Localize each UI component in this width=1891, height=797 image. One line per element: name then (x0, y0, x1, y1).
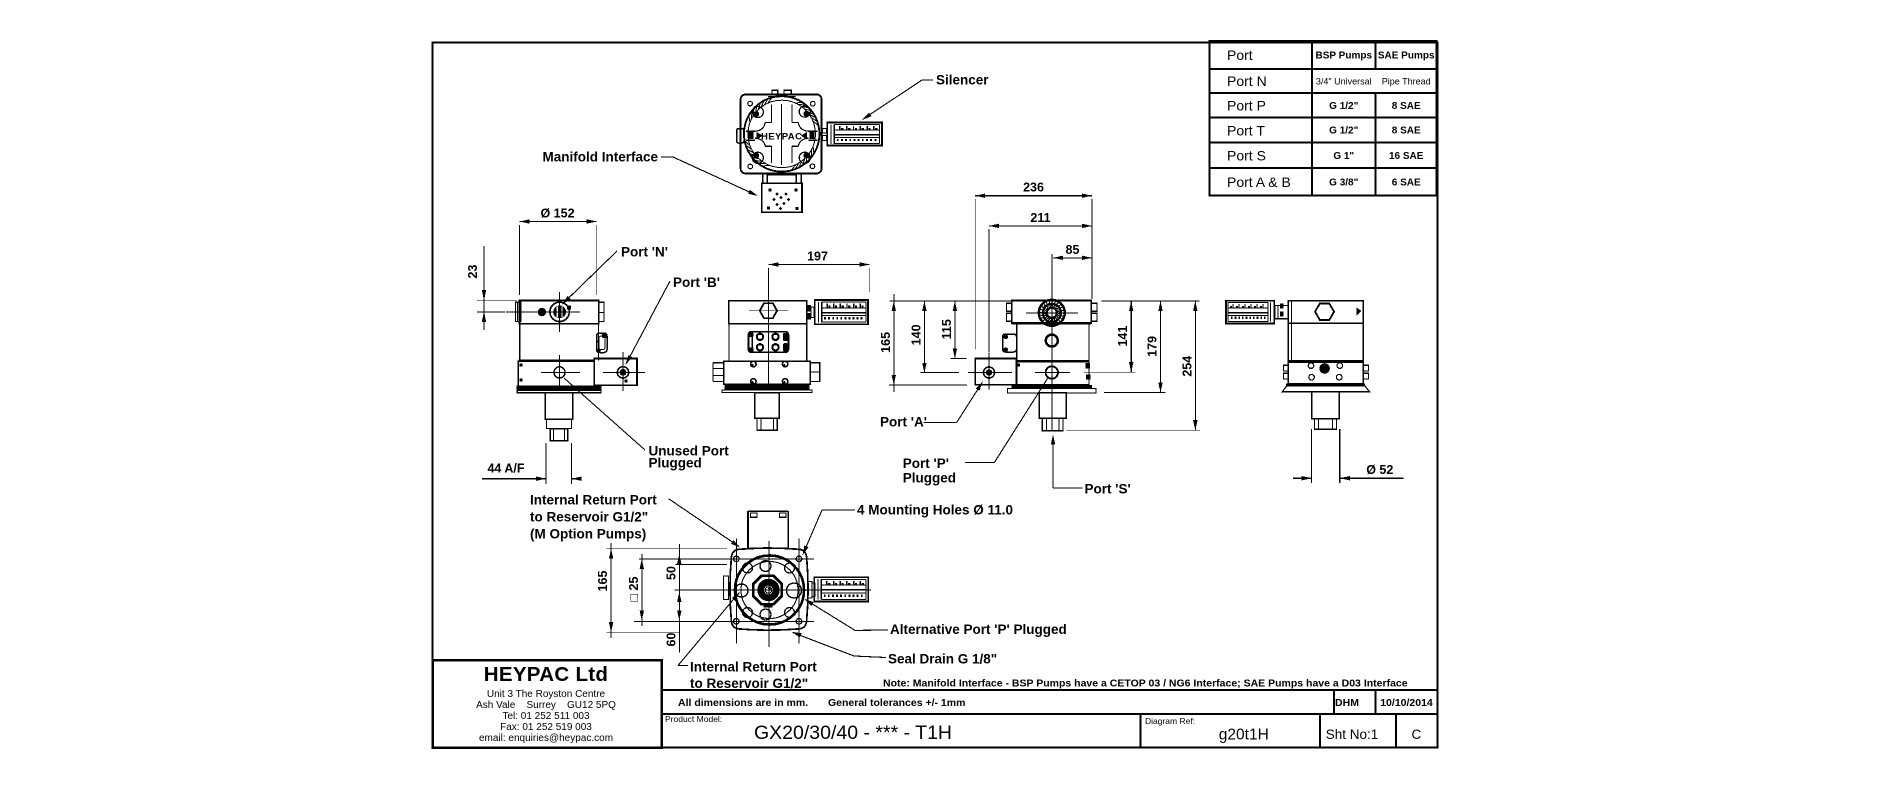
top view: HEYPAC embossed text (749, 131, 815, 142)
svg-text:Seal Drain G 1/8": Seal Drain G 1/8" (888, 652, 997, 667)
port size table (1210, 41, 1437, 196)
dim 140 (909, 301, 959, 373)
svg-text:All dimensions are in mm.: All dimensions are in mm. (678, 697, 808, 709)
svg-text:Note: Manifold Interface - BSP: Note: Manifold Interface - BSP Pumps hav… (883, 678, 1408, 690)
dim 197 (768, 250, 869, 297)
svg-text:Port 'A': Port 'A' (880, 414, 927, 429)
svg-text:Port T: Port T (1227, 122, 1265, 138)
product model row (662, 714, 1422, 748)
top view: motor plate (741, 94, 822, 173)
bottom view manifold neck (748, 511, 788, 549)
svg-text:16 SAE: 16 SAE (1389, 151, 1424, 162)
svg-text:211: 211 (1030, 211, 1050, 225)
svg-text:197: 197 (807, 250, 828, 264)
hex plug port T (749, 293, 788, 390)
end view base flange (1282, 384, 1369, 392)
bottom silencer connector (808, 582, 815, 599)
svg-text:(M Option Pumps): (M Option Pumps) (530, 527, 646, 542)
svg-text:4 Mounting Holes Ø 11.0: 4 Mounting Holes Ø 11.0 (857, 503, 1013, 518)
side view shaft (1039, 393, 1066, 431)
top view: motor circle (744, 96, 819, 171)
dim 152 dia (520, 207, 597, 296)
svg-text:Internal Return Port: Internal Return Port (690, 660, 817, 675)
svg-text:Sht No:1: Sht No:1 (1326, 727, 1379, 742)
label Port N (562, 245, 668, 305)
svg-text:Diagram Ref:: Diagram Ref: (1145, 716, 1195, 726)
top view: manifold interface block (762, 183, 802, 212)
svg-text:179: 179 (1146, 336, 1160, 357)
svg-text:G 1": G 1" (1333, 151, 1354, 162)
svg-text:Port N: Port N (1227, 73, 1267, 89)
svg-text:Ø 152: Ø 152 (540, 207, 574, 221)
svg-text:165: 165 (596, 571, 610, 592)
svg-text:115: 115 (940, 319, 954, 339)
svg-text:Ash Vale Surrey GU12 5PQ: Ash Vale Surrey GU12 5PQ (476, 700, 616, 711)
unused port (541, 355, 580, 391)
silencer port boss (1026, 300, 1078, 326)
svg-text:140: 140 (909, 324, 923, 345)
top view: silencer (827, 123, 882, 146)
svg-text:Fax: 01 252 519 003: Fax: 01 252 519 003 (500, 722, 592, 733)
svg-text:Tel: 01 252 511 003: Tel: 01 252 511 003 (502, 711, 590, 722)
svg-text:10/10/2014: 10/10/2014 (1380, 697, 1433, 709)
dim 141 (1084, 301, 1136, 372)
svg-text:HEYPAC Ltd: HEYPAC Ltd (484, 663, 608, 686)
CETOP manifold interface pads (748, 332, 788, 353)
svg-text:G 3/8": G 3/8" (1329, 177, 1358, 188)
svg-text:Port S: Port S (1227, 148, 1266, 164)
pump housing bolts (751, 361, 788, 384)
port A block (968, 353, 1017, 390)
svg-text:Port 'S': Port 'S' (1085, 482, 1131, 497)
mounting holes (734, 556, 802, 624)
label 4 Mounting Holes (803, 503, 1014, 556)
label Port S (1051, 435, 1131, 497)
svg-text:236: 236 (1023, 181, 1044, 195)
top view: four inner bolt bosses (752, 106, 810, 163)
bottom view mounting plate (730, 548, 808, 630)
top view: manifold neck (763, 173, 802, 184)
svg-text:8 SAE: 8 SAE (1392, 101, 1421, 112)
svg-text:General tolerances +/- 1mm: General tolerances +/- 1mm (828, 697, 965, 709)
end view pump ports (1308, 363, 1342, 380)
label Seal Drain (792, 632, 998, 667)
svg-text:254: 254 (1180, 356, 1194, 377)
svg-text:60: 60 (664, 633, 678, 647)
label Unused Port Plugged (564, 378, 729, 471)
bottom view port circles (735, 561, 802, 621)
title block company box (433, 660, 662, 748)
bottom left tab (724, 576, 729, 600)
svg-text:C: C (1412, 727, 1422, 742)
svg-text:85: 85 (1066, 243, 1080, 257)
dim 179 (1104, 301, 1166, 393)
gauge port (1046, 335, 1058, 347)
bottom view silencer (814, 577, 868, 601)
bottom view pump circle (735, 556, 804, 625)
svg-text:email: enquiries@heypac.com: email: enquiries@heypac.com (479, 733, 613, 744)
label Manifold Interface (542, 150, 758, 197)
front view base flange (516, 386, 601, 393)
svg-text:g20t1H: g20t1H (1219, 727, 1269, 744)
svg-text:Port 'N': Port 'N' (621, 245, 668, 260)
label Internal Return Port bottom (678, 592, 817, 691)
svg-text:G 1/2": G 1/2" (1329, 101, 1358, 112)
svg-text:Silencer: Silencer (936, 73, 989, 88)
port P plugged (1035, 366, 1070, 378)
label Internal Return Port M option (530, 493, 740, 548)
centre view shaft (755, 393, 780, 431)
dim 165 side (879, 294, 1011, 392)
svg-text:Manifold Interface: Manifold Interface (542, 150, 658, 165)
svg-text:Port 'B': Port 'B' (673, 275, 720, 290)
svg-text:Port A & B: Port A & B (1227, 174, 1291, 190)
svg-text:GX20/30/40 - *** - T1H: GX20/30/40 - *** - T1H (754, 722, 952, 744)
svg-text:Port: Port (1227, 47, 1253, 63)
centre silencer connector (807, 305, 814, 320)
svg-text:44 A/F: 44 A/F (487, 462, 524, 476)
side view base flange (1008, 385, 1097, 393)
svg-text:Pipe Thread: Pipe Thread (1382, 76, 1431, 86)
dim 115 (940, 301, 966, 359)
dim 23 (466, 246, 517, 330)
dim square 25 (627, 554, 644, 626)
centre axis line (1051, 254, 1053, 431)
svg-text:6 SAE: 6 SAE (1392, 177, 1421, 188)
end view body (1284, 301, 1369, 384)
svg-text:Plugged: Plugged (649, 456, 702, 471)
label Alternative Port P Plugged (804, 599, 1067, 637)
svg-text:Port 'P': Port 'P' (903, 456, 949, 471)
top view: silencer connector (822, 128, 826, 140)
top view: top tabs (768, 90, 796, 97)
svg-text:Ø 52: Ø 52 (1366, 463, 1393, 477)
dim 52 dia (1293, 463, 1404, 480)
tolerance row (662, 690, 1438, 714)
svg-text:DHM: DHM (1335, 697, 1359, 709)
svg-text:50: 50 (664, 566, 678, 580)
centre view body (713, 301, 820, 385)
end view silencer (1226, 301, 1274, 324)
front view body (516, 300, 604, 385)
end view hex plug (1315, 304, 1361, 320)
svg-text:141: 141 (1116, 326, 1130, 347)
label Port B (626, 275, 720, 365)
svg-text:□ 25: □ 25 (627, 576, 641, 601)
label Silencer (862, 73, 989, 121)
svg-text:Alternative Port 'P' Plugged: Alternative Port 'P' Plugged (890, 622, 1067, 637)
svg-text:Internal Return Port: Internal Return Port (530, 493, 657, 508)
svg-text:HEYPAC: HEYPAC (761, 131, 802, 142)
top view: corner bolt holes (748, 101, 815, 169)
dim 85 (1053, 243, 1092, 260)
right latch clamp (597, 333, 608, 353)
dim 211 (989, 211, 1092, 352)
bottom view drive hex (753, 576, 782, 607)
svg-text:Unit 3 The Royston Centre: Unit 3 The Royston Centre (487, 689, 606, 700)
svg-text:8 SAE: 8 SAE (1392, 126, 1421, 137)
dim 236 (975, 181, 1092, 350)
dim 254 (1067, 301, 1201, 431)
port N boss (506, 292, 580, 332)
top view: left clamp tab (737, 129, 745, 144)
end view shaft (1312, 392, 1340, 429)
end silencer connector (1275, 304, 1288, 319)
centre view base flange (722, 384, 812, 392)
svg-text:G 1/2": G 1/2" (1329, 126, 1358, 137)
svg-text:to Reservoir G1/2": to Reservoir G1/2" (690, 676, 808, 691)
side latch clamp (1003, 334, 1017, 352)
svg-text:Plugged: Plugged (903, 471, 956, 486)
label Port A (880, 381, 983, 429)
dim 44 A/F (482, 443, 582, 484)
svg-text:SAE Pumps: SAE Pumps (1378, 50, 1435, 61)
front view shaft and port S plug (545, 393, 573, 441)
top view: casting cross (746, 104, 817, 165)
svg-text:Port P: Port P (1227, 97, 1266, 113)
svg-text:3/4" Universal: 3/4" Universal (1316, 76, 1372, 86)
dim 165 bottom (596, 543, 727, 638)
bottom view centrelines (634, 539, 871, 648)
centre view silencer (815, 300, 868, 324)
suction tube (1312, 429, 1340, 483)
svg-text:Product Model:: Product Model: (665, 714, 722, 724)
port B block (594, 352, 645, 391)
dim 50 and 60 (664, 544, 727, 653)
svg-text:165: 165 (879, 332, 893, 353)
svg-text:BSP Pumps: BSP Pumps (1316, 50, 1373, 61)
svg-text:23: 23 (466, 265, 480, 279)
svg-text:to Reservoir G1/2": to Reservoir G1/2" (530, 510, 648, 525)
label Port P Plugged (903, 379, 1048, 486)
side view body (1006, 300, 1096, 384)
